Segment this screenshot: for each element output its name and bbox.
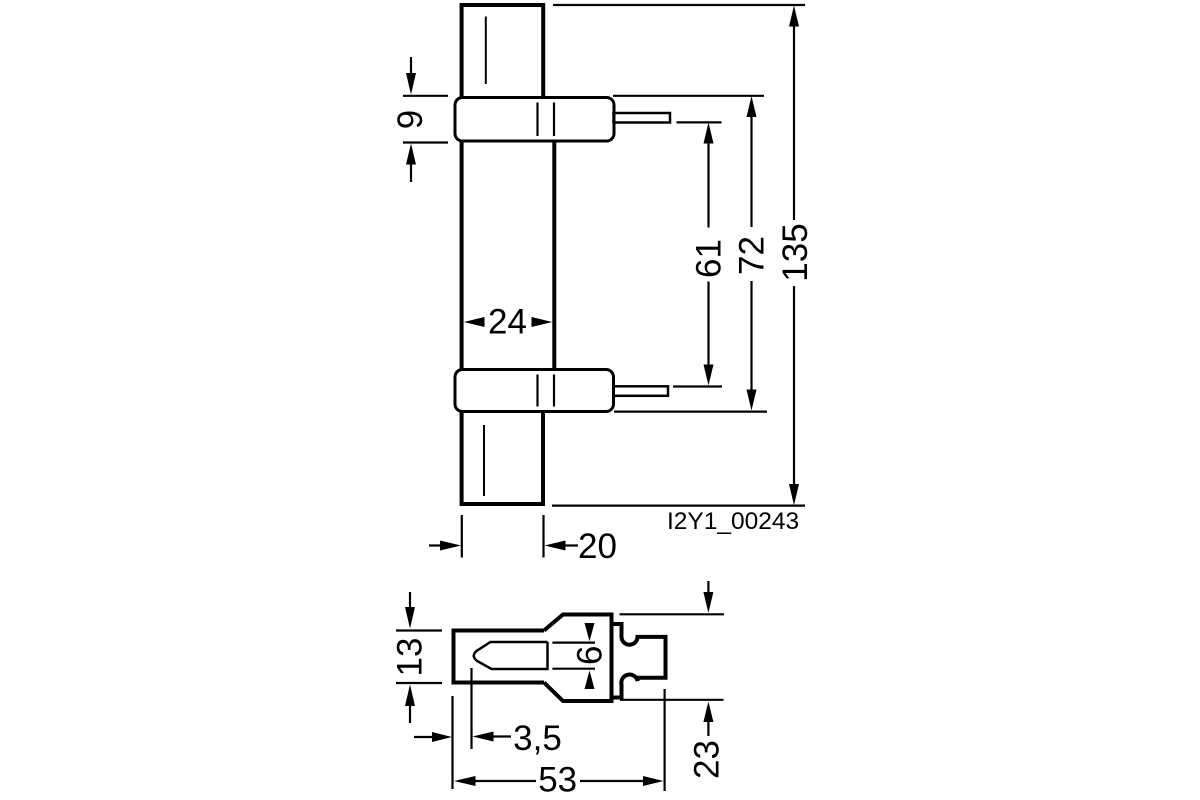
svg-text:61: 61 [690,239,729,278]
svg-text:20: 20 [578,527,617,566]
svg-text:24: 24 [488,303,527,342]
svg-text:13: 13 [391,638,430,677]
svg-text:9: 9 [391,110,430,129]
svg-text:135: 135 [776,223,815,281]
svg-text:3,5: 3,5 [513,719,562,758]
svg-text:72: 72 [733,236,772,275]
svg-text:I2Y1_00243: I2Y1_00243 [667,508,799,535]
svg-text:23: 23 [688,740,727,779]
svg-text:53: 53 [538,761,577,800]
svg-text:6: 6 [571,646,610,665]
